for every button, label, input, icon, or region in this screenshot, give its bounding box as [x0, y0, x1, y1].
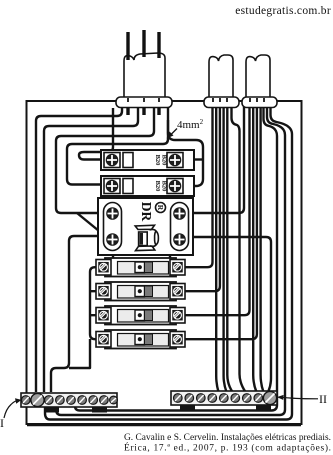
conduit body (circuit conduit B)	[246, 55, 270, 97]
DR toggle lever	[135, 225, 154, 229]
branch breaker 2	[96, 282, 185, 301]
wire conduitB w7 jog to right edge, wraps under to bar I	[45, 107, 292, 420]
cable 3 into conduit	[157, 32, 160, 58]
bar I screw 8	[100, 396, 109, 405]
label I leader arrow	[4, 401, 17, 418]
breaker A rating marks	[154, 155, 168, 166]
wire L4 (to breaker B line)	[67, 108, 168, 185]
wire L5 (to breaker A line)	[79, 108, 113, 160]
wire conduitA w3 (to branch 2 load)	[185, 107, 220, 291]
breaker A body	[101, 150, 194, 170]
svg-text:B20: B20	[154, 181, 161, 192]
wire conduitB w6 jog to right edge, wraps under to bar I	[56, 107, 285, 415]
DR circled mark	[156, 203, 166, 213]
4mm2 leader arrow	[171, 129, 177, 135]
svg-text:R: R	[156, 205, 165, 211]
branch breaker 4	[96, 330, 185, 349]
branch breaker 1	[96, 258, 185, 277]
DR upper-left screw	[107, 208, 118, 219]
bar I main lug screw 2	[31, 393, 44, 406]
bar I screw 1	[22, 396, 31, 405]
conduit body (circuit conduit A)	[209, 55, 233, 97]
cable stub 3 below flange	[157, 107, 160, 115]
flange ticks (circuit A)	[213, 98, 227, 102]
label II leader arrow	[280, 397, 318, 399]
wire conduitA w6 jog right then down to bar II	[232, 107, 246, 392]
ground bar II (right terminal strip)	[171, 391, 277, 405]
breaker A toggle	[123, 153, 133, 168]
phase jumper bus left of branch breakers	[90, 267, 96, 352]
bar II big lug screw 9	[263, 391, 276, 404]
breaker B body	[101, 176, 194, 196]
wire L3 branch diagonal (to DR lower-left)	[77, 213, 99, 231]
DR left terminal stadium	[104, 203, 122, 251]
breaker B left screw	[106, 180, 117, 191]
bar I screw 7	[89, 396, 98, 405]
breaker A right screw	[169, 154, 180, 165]
svg-text:DR: DR	[139, 202, 154, 222]
svg-text:B20: B20	[154, 155, 161, 166]
feed tee to breaker A	[194, 158, 204, 160]
bar I screw 3	[45, 396, 54, 405]
panel enclosure box	[27, 101, 302, 424]
bar I screw 9	[110, 396, 118, 404]
DR lower-right screw	[174, 234, 185, 245]
svg-text:II: II	[319, 392, 327, 406]
bar I screw 4	[56, 396, 65, 405]
bar I screw 6	[78, 396, 87, 405]
breaker B right screw	[169, 180, 180, 191]
feed wire C (4mm2 to breakers A and B)	[168, 120, 203, 186]
wire conduitB w5 jog to right edge, wraps under to bar I	[75, 107, 277, 411]
bar I mounting feet	[44, 407, 59, 413]
DR right terminal stadium	[171, 203, 189, 251]
wire L3 (to DR upper-left)	[56, 108, 154, 213]
cable 2 into conduit	[142, 30, 145, 57]
cable stub 2 below flange	[142, 107, 145, 115]
svg-text:Érica, 17.ª ed., 2007, p. 193: Érica, 17.ª ed., 2007, p. 193 (com adapt…	[124, 442, 331, 454]
conduit flange (circuit A)	[204, 97, 239, 108]
breaker A right screw box	[167, 153, 183, 168]
wire conduitB w1 (to branch 3 load)	[185, 107, 250, 315]
wire L1 (phase to neutral bar lug)	[36, 108, 122, 392]
bar II mounting feet	[180, 405, 195, 411]
wire conduitA w2 (neutral down to bar II)	[216, 107, 218, 392]
wire conduitA w5 (down to bar II)	[227, 107, 232, 392]
neutral bar I (left terminal strip)	[21, 393, 117, 407]
wire conduitB w4 (down to bar II)	[261, 107, 264, 392]
wire from DR lower-left down left side	[51, 236, 99, 392]
wire conduitA w4 (down to bar II)	[224, 107, 227, 392]
bar II screw 1	[174, 394, 183, 403]
bar II screw 5	[220, 394, 229, 403]
wire bus link bottom-left	[69, 352, 90, 368]
bar II screw 7	[243, 394, 252, 403]
wire conduitA w1 (to branch 1 load)	[185, 107, 213, 267]
branch breaker 3	[96, 306, 185, 325]
wire DR upper-right to conduit B	[193, 107, 244, 213]
svg-text:G. Cavalin e S. Cervelin. Inst: G. Cavalin e S. Cervelin. Instalações el…	[124, 433, 331, 443]
breaker A left screw box	[104, 153, 120, 168]
wire conduitB w2 (down to bar II)	[253, 107, 256, 392]
DR to branch row stub left	[112, 255, 114, 261]
bar II screw 6	[231, 394, 240, 403]
DR lower-left screw	[107, 234, 118, 245]
DR residual device box	[98, 198, 193, 255]
bar II screw 2	[185, 394, 194, 403]
panel box bottom edge emphasis	[27, 425, 301, 427]
bar II screw 8	[254, 394, 263, 403]
conduit flange (main)	[116, 97, 172, 108]
DR upper-right screw	[174, 208, 185, 219]
cable stub 1 below flange	[126, 107, 129, 115]
breaker B left screw box	[104, 179, 120, 194]
svg-text:estudegratis.com.br: estudegratis.com.br	[235, 5, 331, 17]
svg-text:I: I	[0, 416, 4, 430]
breaker B toggle	[123, 179, 133, 194]
wire DR lower-right down to bar II big lug	[193, 237, 271, 391]
wire L2	[44, 108, 138, 392]
bar II screw 4	[208, 394, 217, 403]
breaker B right screw box	[167, 179, 183, 194]
conduit body (main, 4mm2 feed)	[124, 53, 165, 97]
flange ticks (main)	[128, 98, 159, 102]
bar I screw 5	[67, 396, 76, 405]
conduit flange (circuit B)	[242, 97, 277, 108]
wire conduitB w3 (to branch 4 load)	[185, 107, 257, 339]
breaker B rating marks	[154, 181, 168, 192]
DR to branch row stub right	[169, 255, 171, 261]
bar II screw 3	[197, 394, 206, 403]
breaker A left screw	[106, 154, 117, 165]
flange ticks (circuit B)	[250, 98, 264, 102]
cable 1 into conduit	[126, 32, 129, 60]
